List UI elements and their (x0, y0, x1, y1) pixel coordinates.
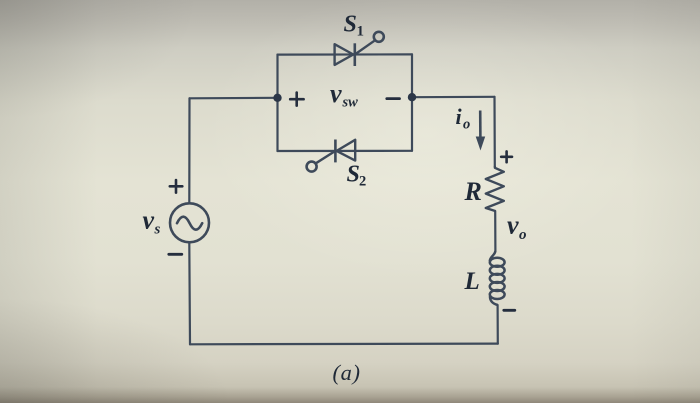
svg-text:i: i (456, 104, 463, 129)
S1 open terminal (374, 32, 384, 42)
S1 diode triangle (335, 44, 354, 65)
wire: right vertical, node to resistor (493, 97, 495, 166)
label vo (507, 211, 527, 244)
svg-text:(a): (a) (333, 360, 361, 385)
wire: middle horizontal, source to left node (190, 97, 278, 100)
label vs (143, 206, 161, 238)
voltage source Vs circle (170, 203, 209, 242)
node B (right junction dot) (408, 93, 416, 101)
svg-text:v: v (330, 79, 342, 108)
sine wave inside source (177, 217, 202, 230)
current arrow io (476, 111, 486, 151)
label S2 (347, 162, 367, 190)
minus sign at source (169, 253, 182, 256)
svg-text:L: L (464, 268, 480, 295)
S2 open terminal (307, 162, 317, 172)
svg-text:o: o (519, 227, 527, 243)
plus sign top of load (501, 151, 512, 162)
svg-text:v: v (143, 206, 155, 235)
svg-text:S: S (344, 12, 357, 38)
inductor L coil (490, 251, 505, 305)
S2 cathode bar (334, 140, 337, 163)
switch S2 (diode + switch lever) (307, 140, 356, 172)
wire: middle horizontal, right node to load (412, 96, 495, 99)
label io (456, 104, 471, 133)
wire: left vertical above source (188, 98, 190, 203)
plus sign at source (170, 180, 183, 193)
switch S1 (diode + switch lever) (335, 32, 384, 66)
label S1 (344, 12, 365, 40)
wire: right vertical, inductor to bottom (497, 305, 499, 344)
svg-text:v: v (507, 211, 519, 240)
svg-text:2: 2 (359, 174, 366, 190)
S2 switch lever (316, 151, 335, 163)
svg-text:sw: sw (342, 95, 359, 111)
label vsw (330, 79, 358, 111)
wire: bottom horizontal (190, 343, 498, 346)
node A (left junction dot) (273, 94, 281, 102)
minus sign right of vsw (387, 97, 400, 100)
wire: right vertical, resistor to inductor (494, 211, 496, 251)
wire: top horizontal (S1 branch) (278, 53, 413, 55)
plus sign left of vsw (290, 93, 303, 106)
S1 cathode bar (353, 43, 356, 66)
svg-text:1: 1 (357, 24, 365, 40)
svg-text:R: R (464, 177, 482, 206)
svg-text:S: S (347, 162, 360, 188)
minus sign bottom of load (504, 309, 515, 312)
S2 diode triangle (337, 140, 356, 161)
wire: box right edge (411, 54, 413, 150)
wire: left vertical below source (188, 243, 191, 344)
S1 switch lever (355, 41, 375, 55)
wire: bottom of box (S2 branch) (278, 150, 413, 152)
wire: box left edge (276, 55, 278, 151)
svg-text:s: s (154, 222, 161, 238)
svg-text:o: o (463, 117, 470, 133)
resistor R zigzag (486, 166, 504, 211)
